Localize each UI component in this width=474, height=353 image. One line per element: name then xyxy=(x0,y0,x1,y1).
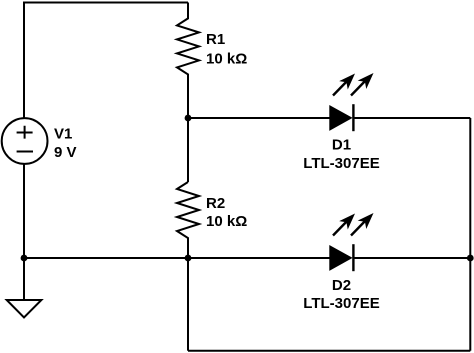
wire D1 cathode to right rail xyxy=(353,117,470,119)
D1 emission arrow 2 xyxy=(351,69,378,96)
node junction dot at V1/ground rail xyxy=(21,255,28,262)
svg-text:10 kΩ: 10 kΩ xyxy=(206,213,247,230)
wire ground stem xyxy=(23,258,25,300)
wire D2 cathode to right rail xyxy=(353,257,470,259)
wire ground rail from node to D2 anode xyxy=(24,257,330,259)
resistor R1 xyxy=(177,3,199,119)
node B junction dot R2 bottom / ground rail xyxy=(185,255,192,262)
svg-text:LTL-307EE: LTL-307EE xyxy=(303,295,379,312)
svg-text:V1: V1 xyxy=(54,126,72,143)
svg-text:LTL-307EE: LTL-307EE xyxy=(303,155,379,172)
svg-text:R1: R1 xyxy=(206,31,225,48)
node junction dot D2 cathode / right rail xyxy=(467,255,474,262)
wire node A to D1 anode xyxy=(188,117,330,119)
D1 emission arrow 1 xyxy=(333,69,359,95)
svg-text:9 V: 9 V xyxy=(54,144,77,161)
wire right rail down xyxy=(469,118,471,351)
svg-text:R2: R2 xyxy=(206,195,225,212)
wire V1 minus down to ground rail xyxy=(23,164,25,258)
ground xyxy=(7,300,42,318)
resistor R2 xyxy=(177,182,199,258)
svg-text:10 kΩ: 10 kΩ xyxy=(206,51,247,68)
wire node A down to R2 top xyxy=(187,118,189,182)
node A junction dot R1/R2/D1 xyxy=(185,115,192,122)
D2 emission arrow 1 xyxy=(333,209,359,235)
wire node B down to bottom rail xyxy=(187,258,189,351)
wire bottom rail xyxy=(188,350,470,352)
wire top rail from V1+ to R1 top xyxy=(24,3,188,119)
D2 emission arrow 2 xyxy=(351,209,378,236)
LED D1 xyxy=(330,104,354,131)
voltage source V1 xyxy=(2,118,48,164)
LED D2 xyxy=(330,244,354,271)
svg-text:D1: D1 xyxy=(332,137,351,154)
svg-text:D2: D2 xyxy=(332,277,351,294)
